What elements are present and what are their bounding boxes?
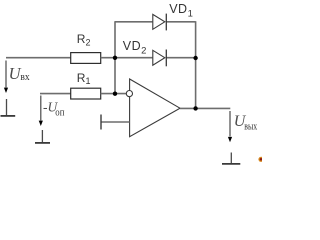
- svg-text:R1: R1: [77, 71, 91, 86]
- wire top branch left: [115, 21, 152, 23]
- wire R2 to node A: [101, 57, 153, 59]
- wire VD2 cathode to node B: [166, 57, 195, 59]
- wire R1 to inverting input: [101, 93, 126, 95]
- node B junction (output): [193, 106, 197, 110]
- wire -Uop to R1: [40, 93, 71, 95]
- svg-text:вх: вх: [20, 72, 29, 83]
- svg-text:R2: R2: [77, 32, 91, 47]
- arrow Uvyx: [228, 111, 232, 142]
- node A junction (R2/VD2): [113, 56, 117, 60]
- resistor R2: [71, 53, 101, 64]
- wire left vertical (node A riser): [114, 21, 116, 94]
- ground stub at non-inverting input: [100, 115, 102, 130]
- svg-text:оп: оп: [55, 107, 65, 118]
- ground (-Uop): [35, 130, 50, 143]
- wire top branch right: [166, 21, 195, 23]
- node A junction (R1/input): [113, 92, 117, 96]
- inversion circle on op-amp input: [126, 91, 132, 97]
- svg-text:вых: вых: [244, 121, 257, 132]
- resistor R1: [71, 88, 101, 99]
- diode VD2: [153, 50, 167, 67]
- arrow -Uop: [39, 96, 43, 127]
- diode VD1: [153, 14, 167, 31]
- wire right vertical (node B riser): [195, 21, 197, 108]
- svg-text:VD1: VD1: [169, 2, 193, 20]
- svg-text:VD2: VD2: [123, 39, 147, 57]
- op-amp U1: [130, 79, 180, 137]
- artifact orange dot: [258, 157, 263, 162]
- ground (output): [222, 153, 240, 164]
- wire main input: [6, 57, 71, 59]
- node B junction (VD2 cathode): [193, 56, 197, 60]
- ground (input): [1, 99, 16, 116]
- wire non-inverting input: [101, 121, 130, 123]
- wire output: [180, 107, 230, 109]
- arrow Uvx: [4, 61, 8, 94]
